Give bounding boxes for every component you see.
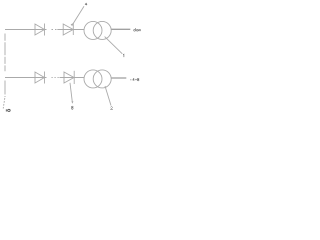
left dashed bus bbox=[3, 34, 5, 109]
label 10 bbox=[6, 109, 10, 111]
label 2 bbox=[110, 107, 113, 110]
wire dashed row2 bbox=[52, 77, 59, 79]
hyphen before label row2 bbox=[130, 79, 132, 81]
label 8 bbox=[72, 106, 74, 109]
diode D3 bbox=[35, 72, 45, 84]
transformer T2 bbox=[84, 70, 111, 88]
LED D2 bbox=[63, 23, 73, 35]
label 4 bbox=[85, 3, 87, 5]
LED D4 bbox=[64, 71, 74, 84]
label out row1 bbox=[134, 28, 141, 31]
wire input row2 bbox=[5, 77, 47, 79]
diode D1 bbox=[35, 24, 45, 36]
wire output row1 bbox=[112, 28, 131, 30]
leader to label 8 bbox=[70, 83, 73, 104]
wire row2 to circles bbox=[60, 77, 85, 79]
label 1 bbox=[122, 54, 125, 57]
label out row2 bbox=[133, 78, 139, 81]
leader to label 2 bbox=[105, 86, 111, 106]
transformer T1 bbox=[84, 21, 111, 39]
wire output row2 bbox=[112, 77, 127, 79]
wire row1 to circles bbox=[57, 29, 84, 31]
wire dashed row1 bbox=[52, 29, 57, 31]
leader to label 4 bbox=[71, 6, 84, 26]
leader to label 1 bbox=[105, 37, 123, 54]
wire input row1 bbox=[5, 29, 47, 31]
